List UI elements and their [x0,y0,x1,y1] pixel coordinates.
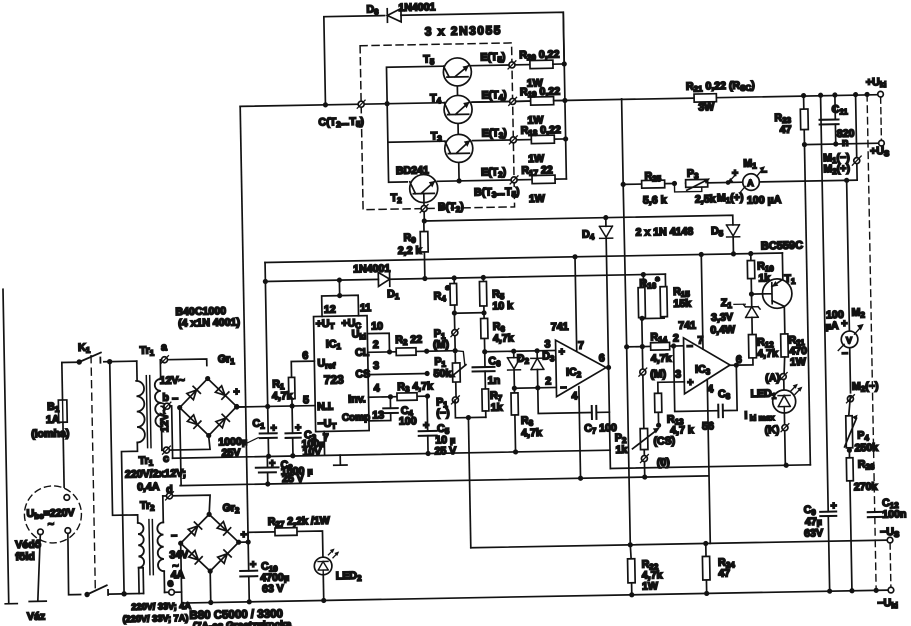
wire M1minus column [856,95,858,180]
resistor R19 0,22 1W [520,85,566,126]
node P1 (M) [433,327,459,350]
svg-text:R18 0,22: R18 0,22 [521,124,561,138]
svg-text:E(T5): E(T5) [480,51,505,64]
wire left column x244 [240,106,248,542]
wire Vedo fold earth [15,535,47,624]
svg-text:M2(−): M2(−) [852,380,879,393]
transformer Tr1 primary [120,381,148,594]
svg-text:2 x 1N 4148: 2 x 1N 4148 [635,226,693,239]
wire pin2 line to P1 top [427,350,455,353]
svg-text:741: 741 [551,321,569,333]
svg-text:B(T2): B(T2) [438,201,464,214]
capacitor C5 10u 25V [418,396,456,458]
wire B(T2) line [424,215,733,230]
svg-text:+: + [269,457,275,469]
resistor R22 4,7k 1W [627,544,663,597]
svg-text:2,2 k: 2,2 k [398,245,422,257]
node lower rail R9 [422,276,427,281]
svg-text:BC559C: BC559C [761,240,803,253]
svg-text:µA: µA [826,320,839,332]
capacitor C9 47u 63V column [796,95,838,594]
svg-text:1A: 1A [46,414,60,426]
pin 4 Inv line + resistor R3 4,7k [368,380,433,401]
svg-text:10: 10 [371,320,383,332]
svg-text:(CS): (CS) [653,435,675,447]
svg-text:1N4001: 1N4001 [398,1,435,14]
node E(T2) box edge [510,176,518,184]
wire E(T2) B(T3..T5) [424,180,533,221]
ground symbol on rail A [334,455,347,465]
svg-text:~: ~ [48,518,54,530]
transistor T2 BD241 [390,164,438,205]
svg-text:(4 x1N 4001): (4 x1N 4001) [178,316,240,329]
label 34V 4A [169,549,188,581]
resistor R9 2,2k [397,221,428,279]
dashed box 3x2N3055 [360,43,514,210]
wire T1 cell right column x807 [804,145,810,465]
svg-text:E(T3): E(T3) [482,127,507,140]
capacitor C6 1n [472,349,501,389]
svg-text:4,7k: 4,7k [757,348,778,360]
svg-text:R3 4,7k: R3 4,7k [397,380,433,394]
pin 2 CL line + resistor R2 22 [367,333,429,356]
svg-text:1k: 1k [615,444,627,456]
svg-text:C7 100: C7 100 [584,422,617,436]
tap c [162,437,211,465]
node rail C11 [832,92,837,97]
svg-text:(−): (−) [436,407,449,419]
switch K1 pole 2 [84,568,144,597]
resistor R14 4,7k [624,331,684,366]
wire E(T3) [473,140,532,141]
svg-text:10 k: 10 k [492,300,513,312]
resistor R27 2,2k 1W [248,515,331,559]
svg-text:(K): (K) [765,424,780,436]
wire Gr2 plus node [239,541,248,543]
svg-text:47: 47 [780,124,792,136]
resistor R18 0,22 1W [521,124,567,165]
resistor R23 47 [774,96,808,146]
wire IC3 pin3 from R13 [658,381,684,383]
svg-text:+: + [423,420,429,432]
svg-text:M1(+): M1(+) [717,192,744,205]
wire rail A common [173,450,610,458]
svg-text:11: 11 [360,302,372,314]
svg-text:50k: 50k [434,368,452,380]
svg-text:M2(+): M2(+) [823,163,850,176]
node M2(-) [846,380,879,403]
wire Gr2 minus to -Uki rail [181,543,182,603]
wire rails left riser [265,262,268,406]
svg-text:Inv.: Inv. [348,393,366,405]
svg-text:N.I.: N.I. [317,401,334,413]
wire Gr1 plus to NI line [237,405,246,408]
svg-text:3: 3 [544,338,550,350]
svg-text:(M): (M) [650,368,666,380]
svg-text:220V/ 33V; 4A: 220V/ 33V; 4A [131,601,191,612]
wire +Us line [804,143,878,144]
resistor R4 star [433,278,457,316]
svg-text:föld: föld [15,551,35,563]
svg-text:4,7k: 4,7k [272,390,293,402]
terminal +Us [879,140,885,146]
node E(T5) box edge [508,61,516,69]
resistor R12 4,7k [748,334,778,360]
LED1 [744,379,803,423]
capacitor C10 4700u 63V [240,541,290,604]
diode D4 1N4148 [582,215,615,369]
svg-text:E(T2): E(T2) [481,166,506,179]
node lower rail R4 [452,275,457,280]
pin 3 CS line [368,359,430,377]
meter M2 voltmeter 100uA [823,180,867,393]
svg-text:Comp: Comp [342,412,371,424]
node crossing box left [357,100,365,108]
svg-text:2: 2 [373,339,379,351]
node (O) [640,454,670,469]
wire dashed terminal link top [880,97,883,140]
wire emitter bus right [563,12,566,179]
tap e open terminal [164,577,181,595]
svg-text:3 x 2N3055: 3 x 2N3055 [425,23,502,38]
wire base column T3..T5 [457,77,459,181]
wire R4-R5 join [454,312,484,315]
svg-text:(M): (M) [433,339,449,351]
wire Gr1 minus to rail C [180,408,181,486]
svg-text:723: 723 [324,373,345,387]
transformer core Tr1 [146,376,151,448]
svg-text:+: + [687,377,693,389]
resistor R6 4,7k [481,312,514,351]
svg-text:c: c [163,453,169,465]
svg-text:12V~: 12V~ [159,407,171,432]
diode D1 1N4001 [353,263,400,302]
svg-text:+: + [233,386,239,398]
svg-text:12: 12 [324,304,336,316]
svg-text:+: + [559,346,565,358]
capacitor C8 56 [674,345,738,433]
svg-text:Védő: Védő [15,539,42,551]
svg-text:3: 3 [675,368,681,380]
tap a [160,341,207,367]
svg-text:47: 47 [718,568,730,580]
node rail dashed col [864,92,869,97]
svg-text:3W: 3W [698,101,714,113]
wire P1 bottom to R7 bottom [455,399,486,417]
wire M1 line [622,95,858,185]
wire upper rail +12V [265,253,782,262]
svg-text:(220V/ 33V; 7A): (220V/ 33V; 7A) [122,613,188,624]
svg-text:+: + [295,422,301,434]
node lower rail R16 [641,272,646,277]
wire IC2 pin7 supply [575,257,577,351]
wire IC3 output to R12 [730,358,753,365]
svg-text:5: 5 [303,394,309,406]
wire IC2 pin4 [579,387,581,478]
wire D6 top loop [324,12,565,105]
wire IC3 pin4 column [707,379,710,543]
capacitor C1 1000u 25V [218,406,278,459]
svg-text:BD241: BD241 [396,164,429,177]
svg-text:47µ: 47µ [805,516,822,528]
resistor R11 470 1W [781,334,808,377]
svg-text:1W: 1W [529,193,545,205]
resistor R24 47 [702,543,736,596]
wire Gr2 bottom vertex to rail [209,571,212,602]
svg-text:R2 22: R2 22 [395,334,422,347]
node B(T2) box edge [420,204,428,212]
pin 7 [323,431,329,455]
transistor T5 2N3055 [423,53,471,87]
capacitor C7 100 [538,386,617,436]
svg-text:100 µA: 100 µA [747,194,782,207]
wire -Us line [471,540,886,548]
svg-text:12V~: 12V~ [160,374,185,386]
svg-text:−: − [842,348,848,360]
svg-text:1N4001: 1N4001 [353,263,390,276]
svg-text:−: − [172,393,178,405]
pin 10 [367,320,389,352]
potentiometer P2 1k [615,428,660,456]
svg-text:0,4A: 0,4A [137,481,160,493]
op-amp IC3 741 [673,319,743,396]
potentiometer P3 2,5k [672,167,716,206]
tap b [161,392,173,459]
transistor T1 BC559C pnp [751,253,797,335]
svg-text:+: + [250,559,256,571]
svg-text:V: V [846,335,852,345]
node rail-D6 [323,102,328,107]
transistor T3 2N3055 [431,130,473,163]
svg-text:(A): (A) [765,372,780,384]
svg-text:+: + [270,422,276,434]
resistor R8 4,7k [511,388,542,455]
transistor T4 2N3055 [430,92,472,124]
capacitor C3 100u 10V [285,405,325,458]
node P1 (-) [436,396,460,420]
node (K) [764,413,789,466]
potentiometer P4 250k [844,395,879,454]
svg-text:6: 6 [302,350,308,362]
resistor R5 10k [479,277,513,316]
resistor R7 1k [482,389,503,418]
svg-text:1W: 1W [642,580,658,592]
svg-text:250k: 250k [854,442,878,454]
pin 5 NI line [236,394,315,410]
wire K1 to Tr1 primary top [136,361,138,381]
node rail R23 [801,93,806,98]
svg-text:4: 4 [374,382,380,394]
capacitor C4 100 [369,396,417,428]
svg-text:15k: 15k [673,298,691,310]
wire dashed terminal link bottom [889,543,892,587]
resistor R21 0,22 RSC 3W [686,79,755,113]
svg-text:+: + [240,529,246,541]
svg-text:4: 4 [571,390,577,402]
capacitor C2 1000u 25V [256,456,313,487]
resistor R16 star [638,274,661,318]
zener diode Z1 3,3V 0,4W [710,294,761,336]
svg-text:100n: 100n [882,508,906,520]
svg-text:n: n [842,137,849,149]
svg-text:1W: 1W [790,356,806,368]
svg-text:4,7k: 4,7k [651,353,672,365]
svg-text:1k: 1k [491,402,503,414]
svg-text:6: 6 [599,352,605,364]
svg-text:56: 56 [702,420,714,432]
node E(T3) box edge [509,136,517,144]
svg-text:(7A-es Greetz=kocka: (7A-es Greetz=kocka [193,620,292,626]
svg-text:4,7k: 4,7k [493,332,514,344]
resistor R20 0,22 1W [519,48,565,89]
wire dashed column C12 [867,94,876,590]
transformer Tr2 secondary [157,496,165,592]
svg-text:+: + [841,318,847,330]
svg-text:b: b [162,392,169,404]
fuse B1 1A lomha [30,362,71,498]
node M1(+) [717,175,744,205]
svg-text:2,5k: 2,5k [695,193,716,205]
svg-text:E(T4): E(T4) [481,89,506,102]
switch K1 pole 1 [61,341,136,365]
wire E(T4) [472,101,531,102]
mains input Ube 220V [24,485,82,543]
svg-text:+: + [732,167,738,179]
meter M1 ammeter 100uA [732,157,782,207]
resistor R26 270k [846,447,879,593]
wire IC3 pin7 supply [701,254,703,348]
wire IC2 pin2 line [514,386,556,389]
svg-text:4,7k: 4,7k [521,427,542,439]
pin 12 11 supply bus [321,277,371,316]
wire Ube neutral to bottom switch [67,533,80,595]
svg-text:7: 7 [578,340,584,352]
wire E(T5) [471,65,530,66]
diode D3 [531,348,556,391]
wire minus supply column x466 [468,418,470,548]
svg-text:d: d [166,484,173,496]
svg-text:R20 0,22: R20 0,22 [519,49,559,63]
transformer Tr2 primary [138,523,145,594]
svg-text:−: − [761,166,767,178]
svg-text:R17 22: R17 22 [521,164,553,178]
svg-text:1n: 1n [488,375,501,387]
node lower rail R5 [481,275,486,280]
svg-text:220V/2x12V;: 220V/2x12V; [125,467,186,480]
transformer core Tr2 [149,520,153,575]
resistor R10 1k [747,251,775,297]
main rail C(T2...T5) +33V [240,95,878,107]
svg-text:(lomha): (lomha) [31,428,69,441]
svg-text:741: 741 [678,320,696,332]
svg-text:1W: 1W [528,153,544,165]
node rail C9col [818,93,823,98]
potentiometer P1 50k [433,351,466,401]
svg-text:63 V: 63 V [262,583,284,595]
svg-text:3: 3 [373,360,379,372]
wire P1 column top [453,313,456,351]
pin 6 Uref + resistor R1 4,7k [271,350,315,409]
tap d [163,483,211,515]
dashed switch link [91,356,95,590]
svg-text:2: 2 [673,332,679,344]
diode D2 [507,348,530,391]
svg-text:0,4W: 0,4W [710,324,735,336]
wire IC2 output column [606,368,610,469]
bridge rectifier Gr2 [170,502,247,575]
node (A) [765,372,787,384]
svg-text:−: − [687,341,693,353]
svg-text:5,6 k: 5,6 k [643,194,667,206]
svg-text:100: 100 [399,415,417,427]
capacitor C12 100n [867,497,907,593]
resistor R15 15k [639,274,692,321]
terminal -Uki [888,587,894,593]
svg-text:13: 13 [372,409,384,421]
wire sense column x626 [623,184,630,544]
transformer Tr1 secondary [154,360,162,450]
diode D5 1N4148 [711,225,740,257]
node rail-collector column [385,101,390,106]
wire lower rail [265,274,665,281]
svg-text:a: a [161,341,167,353]
svg-text:−: − [560,382,566,394]
diode D6 [366,1,436,22]
svg-text:−: − [171,530,177,542]
svg-text:+: + [830,500,836,512]
bridge rectifier Gr1 [171,353,240,439]
wire rail C minus [180,476,708,486]
svg-text:A: A [747,178,754,188]
svg-text:Váz: Váz [27,611,45,623]
LED2 [314,548,362,603]
svg-text:3,3V: 3,3V [711,311,733,323]
svg-text:63V: 63V [804,527,823,539]
left border chassis line [0,289,17,604]
resistor R17 22 1W [521,164,567,205]
resistor R25 5,6k [641,170,666,206]
terminal +Uki [878,91,884,97]
resistor R13 4,7k + (CS) [652,382,694,448]
wire -Uki rail [182,590,887,603]
IC1 723 regulator box [314,316,372,432]
node E(T4) box edge [509,97,517,105]
wire collector column [386,66,445,182]
node rail M1minus col [853,92,858,97]
node M1(-) M2(+) [823,152,861,177]
capacitor C11 820n [819,95,855,150]
wire P2 column [642,319,645,477]
wire IC2 pin3 line [485,350,556,351]
wire K1 link column to Tr2 [110,361,138,523]
op-amp IC2 741 [544,320,606,403]
svg-text:2: 2 [545,375,551,387]
svg-text:R19 0,22: R19 0,22 [520,86,560,100]
terminal -Us [887,537,893,543]
svg-text:25 V: 25 V [434,445,456,457]
node (M) right [639,368,666,381]
wire rail A jog to T1 cell [610,465,810,469]
svg-text:4A: 4A [171,569,185,581]
